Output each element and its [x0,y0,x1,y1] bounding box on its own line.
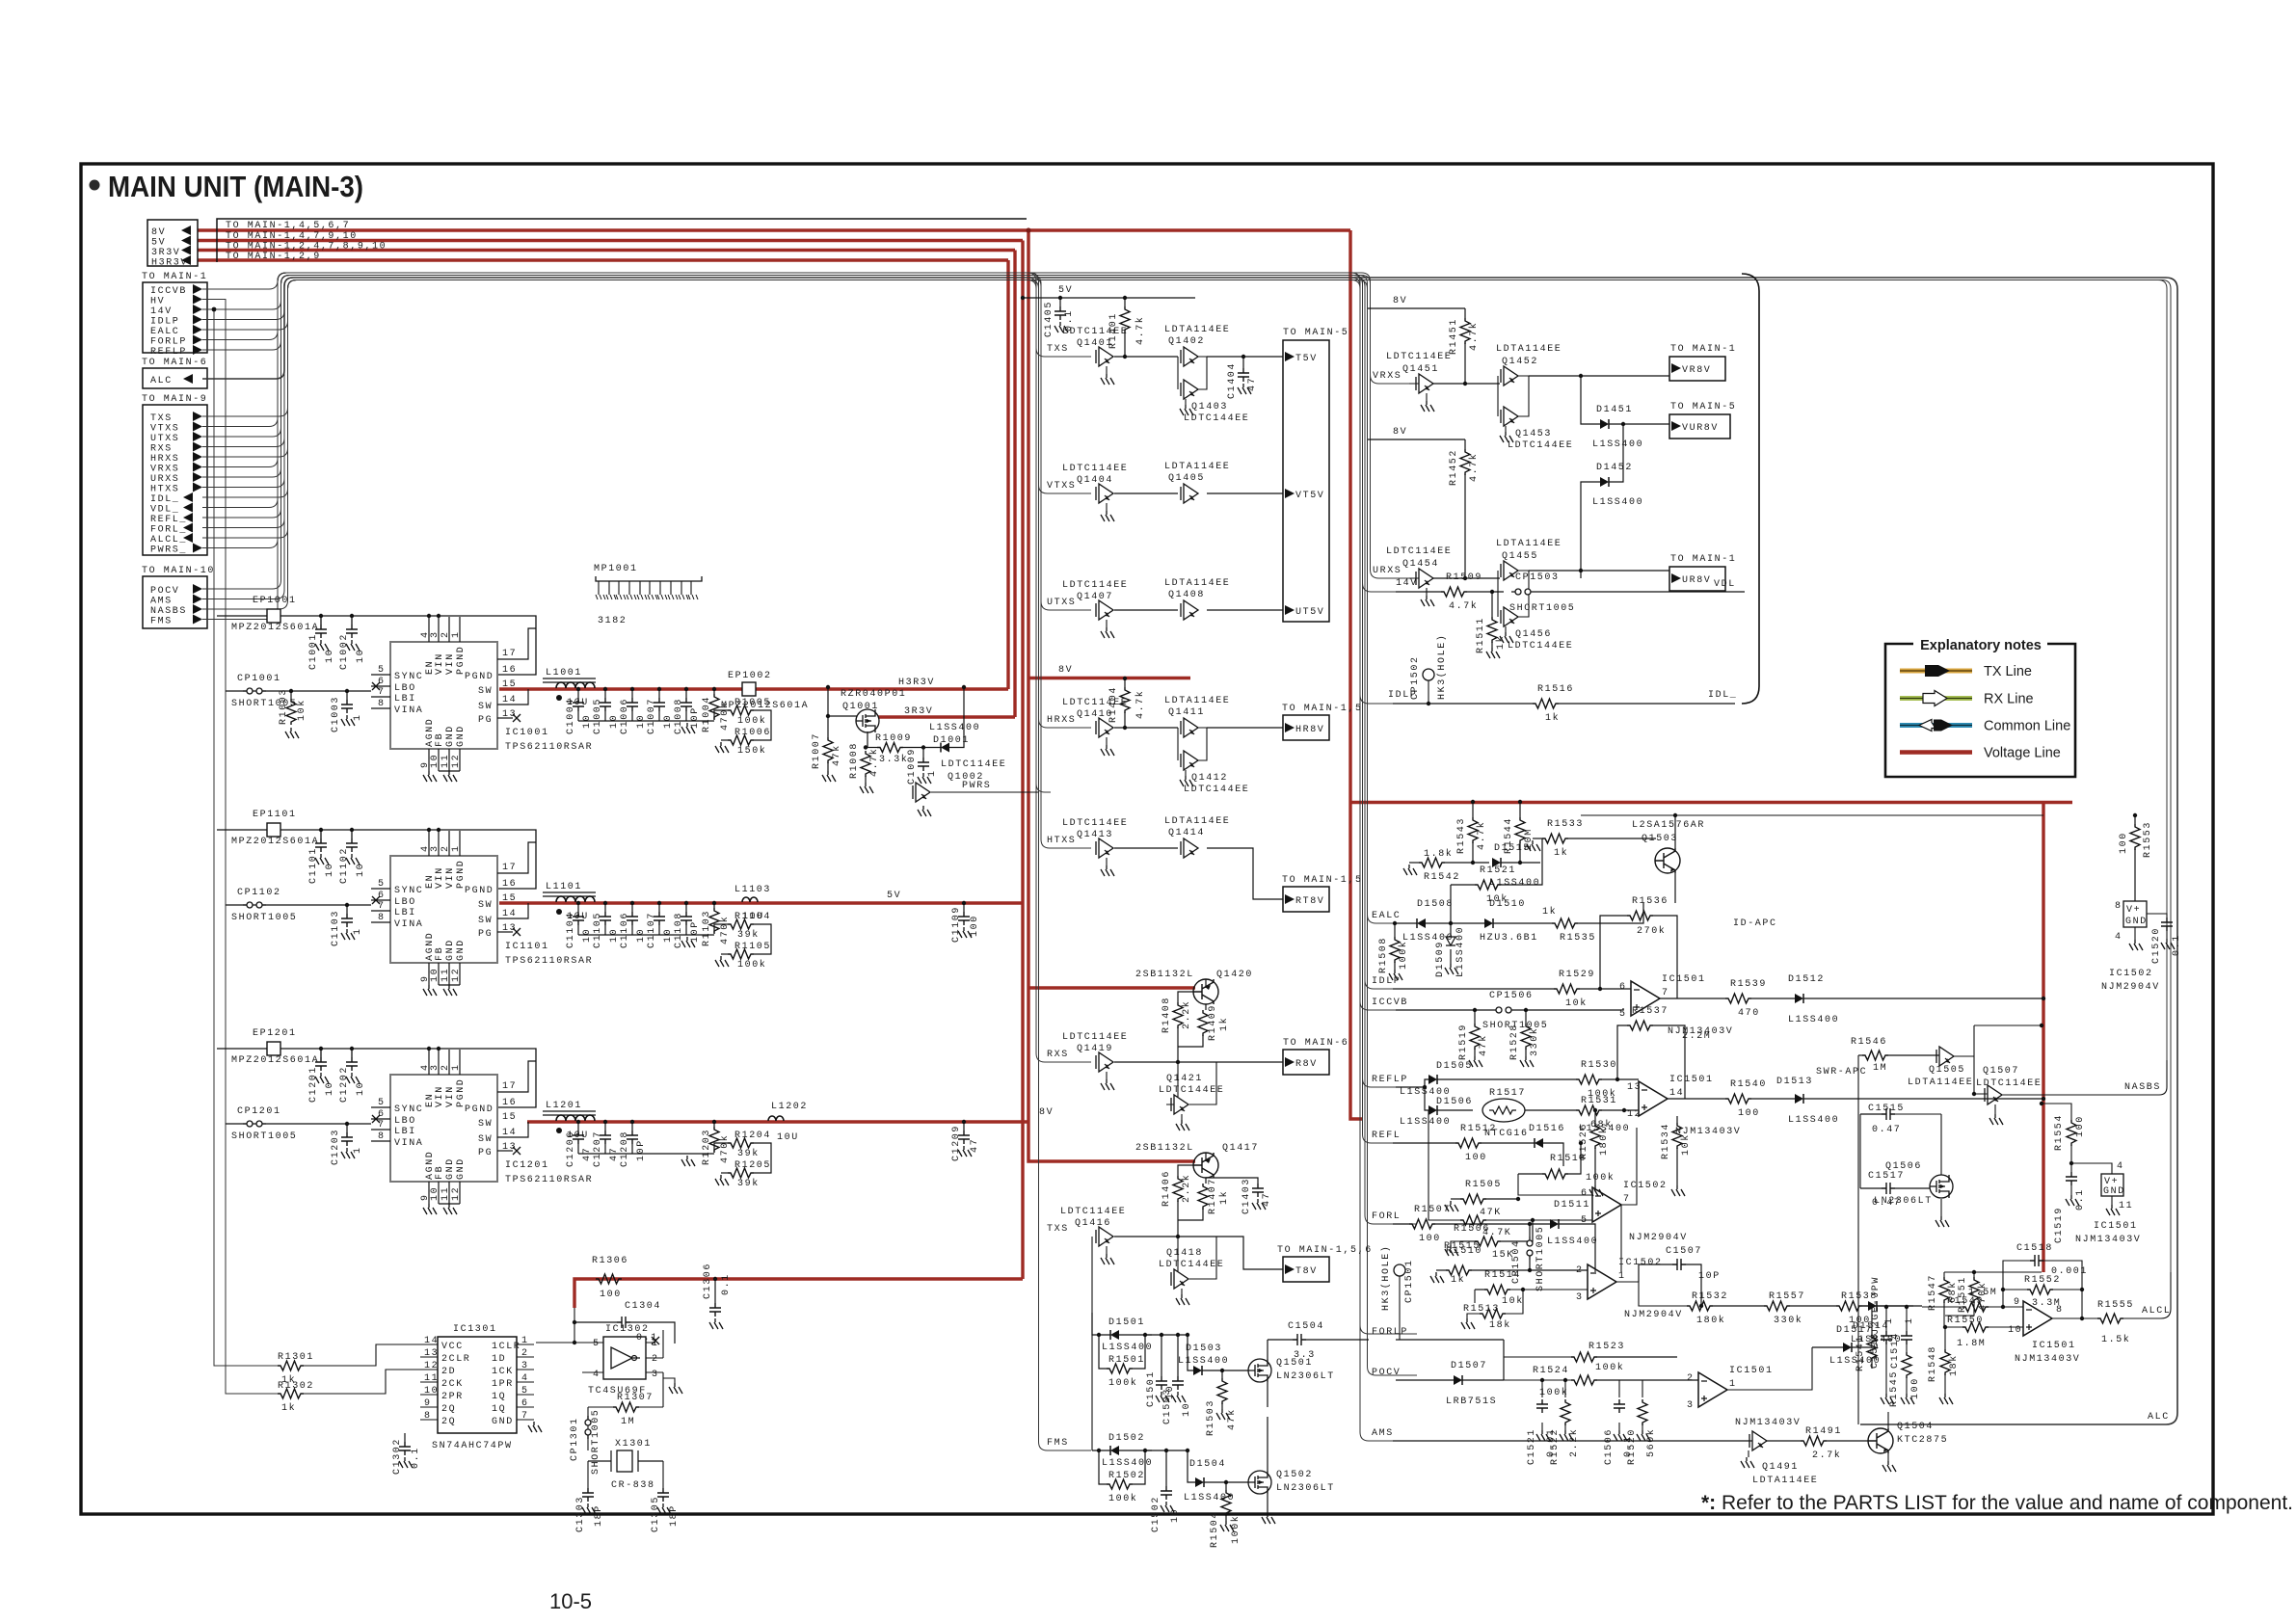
svg-text:100k: 100k [1586,1172,1615,1184]
pin 8 VINA [371,921,390,923]
svg-text:V+: V+ [2126,905,2141,916]
svg-text:R1508: R1508 [1378,937,1389,973]
svg-text:C1506: C1506 [1604,1428,1615,1465]
svg-text:HZU3.6B1: HZU3.6B1 [1480,933,1538,944]
arrow IDL_ [183,492,193,502]
svg-text:R1524: R1524 [1533,1366,1569,1376]
part R1522 [1563,1378,1567,1382]
svg-text:100k: 100k [737,715,766,727]
pin 14 SW [497,689,528,705]
resistor R1005 [714,710,728,719]
svg-text:PGND: PGND [465,886,494,896]
resistor R1515 15K [1460,1240,1475,1242]
svg-text:EP1101: EP1101 [253,810,297,820]
resistor R1408 2.2k [1173,1002,1183,1028]
svg-text:RX Line: RX Line [1984,692,2034,707]
resistor R1536 270k [1627,911,1653,920]
capacitor C1305 18P [662,1461,664,1488]
transistor Q1412 LDTC144EE [1181,751,1198,770]
capacitor C1106 [630,901,634,905]
wire HRXS [202,280,1091,729]
arrow VT5V [1285,489,1295,498]
svg-text:Q1411: Q1411 [1168,707,1205,718]
8V vertical mid [1028,230,1195,1161]
svg-text:4.7k: 4.7k [1449,600,1478,612]
power connector box [147,220,198,266]
svg-text:R1543: R1543 [1456,817,1467,854]
svg-text:11: 11 [441,1186,451,1201]
jumper CP1301 SHORT1005 [587,1407,589,1450]
svg-text:TPS62110RSAR: TPS62110RSAR [505,956,593,967]
svg-text:REFL_: REFL_ [150,515,187,525]
svg-text:R1409: R1409 [1208,1004,1218,1041]
pin 7 LBI [371,1129,390,1131]
arrow AMS [193,595,202,604]
svg-text:HRXS: HRXS [150,454,179,465]
svg-text:NASBS: NASBS [2124,1082,2161,1093]
svg-text:100k: 100k [1230,1515,1241,1544]
svg-text:GND: GND [492,1417,514,1427]
pin 9 AGND [428,1182,430,1204]
ground TC4SU69F [669,1383,682,1394]
svg-text:3: 3 [652,1370,659,1380]
pin 3 1CK [517,1369,534,1370]
svg-text:R1547: R1547 [1928,1274,1938,1311]
arrow T5V [1285,352,1295,361]
TO MAIN-10 connector box [143,576,207,628]
wire REFL [202,276,1417,1144]
svg-text:3: 3 [521,1361,529,1371]
svg-text:R1522: R1522 [1550,1428,1561,1465]
svg-text:Q1412: Q1412 [1191,773,1228,784]
svg-text:TXS: TXS [1047,344,1069,355]
capacitor C1002 [350,614,354,618]
svg-text:12: 12 [451,754,462,768]
resistor R1541 [1871,1306,1873,1335]
svg-text:LDTA114EE: LDTA114EE [1908,1078,1973,1088]
svg-text:L1SS400: L1SS400 [1178,1356,1229,1367]
arrow PWRS_ [193,544,202,553]
part C1506 [1618,1380,1620,1397]
svg-text:8V: 8V [1393,427,1407,438]
svg-text:LDTA114EE: LDTA114EE [1496,539,1562,549]
svg-text:T8V: T8V [1295,1266,1318,1277]
capacitor C1502 [1164,1449,1168,1452]
svg-text:R1504: R1504 [1210,1511,1220,1548]
svg-text:SYNC: SYNC [394,672,423,682]
svg-text:D1502: D1502 [1108,1433,1145,1444]
svg-text:0.1: 0.1 [2172,934,2182,956]
svg-text:8: 8 [424,1411,432,1422]
svg-text:0.1: 0.1 [721,1273,732,1295]
svg-text:1: 1 [451,1063,462,1071]
svg-text:4.7k: 4.7k [1468,322,1480,351]
svg-text:SHORT1005: SHORT1005 [231,913,297,923]
svg-text:10: 10 [430,1186,441,1201]
pin 3 VIN [438,831,440,856]
pin 17 [497,842,536,873]
power pins V+/GND IC1501 [2071,1163,2112,1174]
svg-text:SYNC: SYNC [394,886,423,896]
svg-text:560k: 560k [1645,1428,1657,1457]
svg-text:4.7k: 4.7k [1476,821,1487,850]
svg-text:IDL_: IDL_ [150,494,179,505]
svg-text:PGND: PGND [456,1078,467,1107]
svg-text:SW: SW [478,1134,493,1145]
svg-text:4: 4 [521,1373,529,1384]
svg-text:Q1403: Q1403 [1191,402,1228,412]
svg-text:TPS62110RSAR: TPS62110RSAR [505,1175,593,1185]
svg-text:SN74AHC74PW: SN74AHC74PW [432,1441,513,1451]
section outline (Q1451 area) [1742,274,1759,704]
capacitor C1006 [630,687,634,691]
svg-text:1k: 1k [1554,847,1568,859]
svg-text:Q1416: Q1416 [1075,1218,1111,1229]
svg-text:MPZ2012S601A: MPZ2012S601A [231,837,319,847]
svg-text:GND: GND [456,939,467,961]
svg-text:LDTC114EE: LDTC114EE [1976,1078,2042,1089]
capacitor C1009 [921,745,925,749]
pin 5 1Q [517,1394,534,1396]
svg-text:VT5V: VT5V [1295,491,1324,501]
svg-text:2CLR: 2CLR [441,1354,470,1365]
svg-text:R1530: R1530 [1581,1060,1617,1071]
svg-text:HTXS: HTXS [150,485,179,495]
svg-text:FB: FB [435,1165,445,1180]
svg-text:LBI: LBI [394,1127,416,1137]
svg-text:Q1419: Q1419 [1077,1044,1113,1054]
resistor R1541 [1867,1335,1877,1361]
capacitor C1520 0.1 [2147,914,2167,918]
resistor R1539 470 [1725,994,1751,1003]
arrow HRXS [193,452,202,462]
arrow HV [193,295,202,305]
svg-text:NJM2904V: NJM2904V [1624,1310,1683,1320]
svg-text:Q1453: Q1453 [1515,429,1552,439]
capacitor C1503 [1176,1333,1180,1337]
capacitor C1101 [319,828,323,832]
svg-text:R1557: R1557 [1769,1291,1805,1302]
svg-text:L1001: L1001 [546,668,582,678]
capacitor C1206 [576,1120,580,1124]
resistor R1104 [714,924,728,933]
svg-text:C1519: C1519 [2054,1207,2065,1243]
svg-text:R1512: R1512 [1460,1124,1497,1134]
svg-text:C1102: C1102 [339,847,350,884]
svg-text:IC1101: IC1101 [505,942,549,952]
pin 11 GND [448,749,450,771]
svg-text:VINA: VINA [394,705,423,716]
svg-text:C1103: C1103 [331,910,341,946]
arrow FORLP [193,335,202,345]
resistor R1511 1k [1487,617,1497,643]
svg-text:L2SA1576AR: L2SA1576AR [1632,820,1705,831]
resistor R1404 4.7k [1123,677,1127,680]
svg-text:Q1418: Q1418 [1166,1248,1203,1259]
svg-text:EP1002: EP1002 [728,671,772,681]
svg-text:1.5k: 1.5k [2101,1334,2130,1345]
svg-text:RZR040P01: RZR040P01 [841,689,906,700]
svg-text:100: 100 [1910,1377,1921,1399]
svg-text:R1205: R1205 [734,1160,771,1171]
arrow URXS [193,472,202,482]
svg-text:6: 6 [1619,982,1627,993]
svg-text:R1537: R1537 [1632,1006,1669,1017]
svg-text:VINA: VINA [394,1138,423,1149]
capacitor C1103 [345,903,349,907]
svg-text:IC1501: IC1501 [1669,1075,1714,1085]
svg-text:X1301: X1301 [615,1439,652,1450]
pin 8 VINA [371,1140,390,1142]
svg-text:Explanatory notes: Explanatory notes [1920,638,2042,653]
pin 3 VIN [438,617,440,642]
svg-text:L1SS400: L1SS400 [1592,497,1643,508]
svg-text:R1009: R1009 [875,733,912,744]
svg-text:LRB751S: LRB751S [1446,1397,1497,1407]
svg-text:R1401: R1401 [1108,312,1119,349]
svg-text:R1519: R1519 [1458,1024,1469,1060]
svg-text:10: 10 [325,1081,335,1096]
svg-text:10k: 10k [1486,893,1508,905]
resistor R1515 15K [1475,1237,1501,1246]
svg-text:LDTC114EE: LDTC114EE [1062,580,1128,591]
svg-text:0.1: 0.1 [2075,1188,2086,1211]
svg-text:470: 470 [1738,1008,1760,1019]
svg-text:TO MAIN-6: TO MAIN-6 [1283,1038,1348,1049]
resistor R1004 470k [712,687,716,691]
pin 11 GND [448,963,450,985]
svg-text:13: 13 [502,709,517,720]
svg-text:R1517: R1517 [1489,1088,1526,1099]
svg-text:SW: SW [478,916,493,926]
resistor R1542 1.8k [1409,862,1419,864]
svg-text:LDTC144EE: LDTC144EE [1159,1085,1224,1096]
svg-text:Voltage Line: Voltage Line [1984,746,2061,761]
svg-text:VRXS: VRXS [150,465,179,475]
svg-text:FORLP: FORLP [1372,1327,1408,1338]
svg-text:1M: 1M [1873,1063,1887,1074]
resistor R1526 180k [1593,1108,1597,1112]
svg-text:VDL_: VDL_ [150,505,179,516]
svg-text:12: 12 [424,1361,439,1371]
arrow IDLP [193,315,202,325]
svg-text:R1542: R1542 [1424,872,1460,883]
svg-text:CR-838: CR-838 [611,1480,655,1491]
svg-text:T5V: T5V [1295,354,1318,364]
svg-text:2: 2 [652,1354,659,1365]
svg-text:1: 1 [451,630,462,638]
svg-text:R1555: R1555 [2097,1300,2134,1311]
svg-text:15: 15 [502,1112,517,1123]
svg-text:0.47: 0.47 [1872,1125,1901,1135]
svg-text:16: 16 [502,665,517,676]
svg-text:10: 10 [424,1386,439,1397]
resistor R1534 10k [1672,1123,1682,1149]
resistor R1551 470k [1973,1272,1975,1277]
arrow VDL_ [183,503,193,513]
capacitor C1209 [962,1120,966,1124]
svg-text:16: 16 [502,879,517,890]
wire TXS [202,280,1091,417]
pad CP1502 HK3(HOLE) [1423,669,1434,680]
svg-text:IC1501: IC1501 [1662,974,1706,985]
svg-text:LDTA114EE: LDTA114EE [1164,696,1230,706]
arrow ALC [183,374,193,384]
svg-text:10: 10 [356,1081,366,1096]
svg-text:Q1452: Q1452 [1502,357,1538,367]
svg-text:C1306: C1306 [703,1263,713,1299]
svg-text:C1104: C1104 [566,912,576,948]
TO MAIN-1 connector box [143,282,207,353]
svg-text:1CK: 1CK [492,1367,514,1377]
resistor R1401 4.7k [1123,296,1127,300]
bus label box outline [217,219,1027,262]
svg-text:L1SS400: L1SS400 [1400,1117,1451,1128]
svg-text:47k: 47k [831,744,842,766]
svg-text:LDTC114EE: LDTC114EE [1062,818,1128,829]
MOSFET Q1501 LN2306LT [1222,1370,1248,1371]
svg-text:1: 1 [1905,1317,1915,1324]
svg-text:D1501: D1501 [1108,1317,1145,1328]
arrow EALC [193,325,202,334]
transistor Q1403 LDTC144EE [1181,380,1198,399]
resistor R1505 47K [1451,1198,1460,1200]
resistor R1509 4.7k [1441,587,1467,597]
svg-text:R1529: R1529 [1559,970,1595,980]
resistor R1521 10k [1450,885,1452,923]
svg-text:IC1502: IC1502 [1618,1258,1663,1268]
pin 4 EN [428,617,430,642]
svg-text:R1204: R1204 [734,1131,771,1141]
pin 1 PGND [459,1050,461,1075]
svg-text:L1SS400: L1SS400 [1579,1124,1630,1134]
svg-text:10: 10 [325,863,335,877]
svg-text:2CK: 2CK [441,1379,464,1390]
svg-text:IC1502: IC1502 [2109,969,2153,979]
svg-text:HR8V: HR8V [1295,725,1324,735]
wire NASBS into bundle [202,280,2167,1061]
8V tap to Q1420 [1028,986,1195,989]
voltage bus 5V [198,239,1023,242]
svg-text:PWRS: PWRS [962,781,991,791]
svg-text:D1516: D1516 [1529,1124,1565,1134]
pin 14 SW [497,903,528,918]
svg-text:Q1454: Q1454 [1402,559,1439,570]
svg-text:100k: 100k [1108,1493,1137,1504]
capacitor C1306 [713,1277,717,1281]
svg-text:C1203: C1203 [331,1129,341,1165]
svg-text:1k: 1k [1218,1017,1230,1031]
svg-text:C1009: C1009 [907,748,918,785]
svg-text:Q1417: Q1417 [1222,1143,1259,1154]
svg-text:100k: 100k [1595,1362,1624,1373]
pin 6 LBO [371,899,390,901]
H3R3V vertical [1006,260,1009,689]
svg-text:R1105: R1105 [734,942,771,952]
resistor R1204 [714,1143,728,1152]
svg-text:47: 47 [1262,1192,1272,1207]
svg-text:8: 8 [378,699,386,709]
transistor Q1456 LDTC144EE [1501,607,1518,626]
pin 7 LBI [371,910,390,912]
svg-text:Q1407: Q1407 [1077,592,1113,602]
resistor R1205 [728,1168,754,1178]
svg-text:L1103: L1103 [734,885,771,895]
svg-text:R1554: R1554 [2054,1114,2065,1151]
svg-text:TXS: TXS [150,413,173,424]
svg-text:2: 2 [441,1063,451,1071]
svg-text:10P: 10P [1698,1271,1721,1282]
resistor R1544 10M [1518,800,1522,804]
svg-text:TO MAIN-1,2,9: TO MAIN-1,2,9 [226,252,321,262]
svg-text:100k: 100k [1108,1377,1137,1389]
resistor R1507 100 [1409,1219,1435,1229]
svg-text:3182: 3182 [598,616,627,626]
svg-text:LDTC114EE: LDTC114EE [1062,1032,1128,1043]
svg-text:1: 1 [1618,1271,1626,1282]
svg-text:NJM13403V: NJM13403V [2075,1235,2141,1245]
svg-text:C1507: C1507 [1666,1246,1702,1257]
svg-text:D1504: D1504 [1189,1459,1226,1470]
svg-text:2.2k: 2.2k [1568,1428,1580,1457]
svg-text:17: 17 [502,649,517,659]
resistor R1503 47k [1220,1369,1224,1372]
transistor Q1491 LDTA114EE [1749,1431,1767,1450]
svg-text:L1SS400: L1SS400 [1455,926,1466,977]
svg-text:Q1421: Q1421 [1166,1074,1203,1084]
wire AMS [202,278,1417,1441]
svg-text:AMS: AMS [1372,1428,1394,1439]
wire 14V to regulator feeds and VDL row [202,276,1396,593]
svg-text:LDTC114EE: LDTC114EE [1062,698,1128,708]
svg-text:AMS: AMS [150,597,173,607]
svg-text:R1406: R1406 [1161,1170,1172,1207]
svg-text:C1101: C1101 [308,847,319,884]
svg-text:LDTC144EE: LDTC144EE [1508,641,1573,652]
svg-text:NJM13403V: NJM13403V [1735,1418,1801,1428]
resistor R1544 10M [1515,817,1525,843]
svg-text:R1553: R1553 [2143,821,2153,858]
wire IDL [202,280,1396,705]
svg-text:2PR: 2PR [441,1392,464,1402]
svg-text:2.2k: 2.2k [1181,1174,1192,1203]
capacitor C1207 [603,1120,607,1124]
svg-text:CP1506: CP1506 [1489,991,1534,1001]
svg-text:LDTC144EE: LDTC144EE [1508,440,1573,451]
svg-text:R1491: R1491 [1805,1426,1842,1437]
svg-text:Q1503: Q1503 [1642,834,1678,844]
wire VRXS [202,273,1409,467]
svg-text:6: 6 [378,1109,386,1120]
8V drop far right [2042,803,2044,1273]
svg-text:10k: 10k [1565,998,1588,1009]
arrow ICCVB [193,284,202,294]
svg-text:LBI: LBI [394,908,416,918]
resistor R1505 47K [1460,1194,1486,1204]
wire VIN rail [217,1049,536,1107]
svg-text:GND: GND [445,725,456,747]
svg-text:Q1405: Q1405 [1168,473,1205,484]
pin 17 [497,628,536,659]
bead EP1002 [742,682,756,696]
svg-text:L1SS400: L1SS400 [1592,439,1643,450]
svg-text:15: 15 [502,679,517,690]
svg-text:1.8M: 1.8M [1957,1339,1986,1349]
svg-text:SW: SW [478,1119,493,1130]
wire FMS [202,273,1091,1450]
svg-text:13: 13 [424,1348,439,1359]
svg-text:C1517: C1517 [1868,1171,1905,1182]
